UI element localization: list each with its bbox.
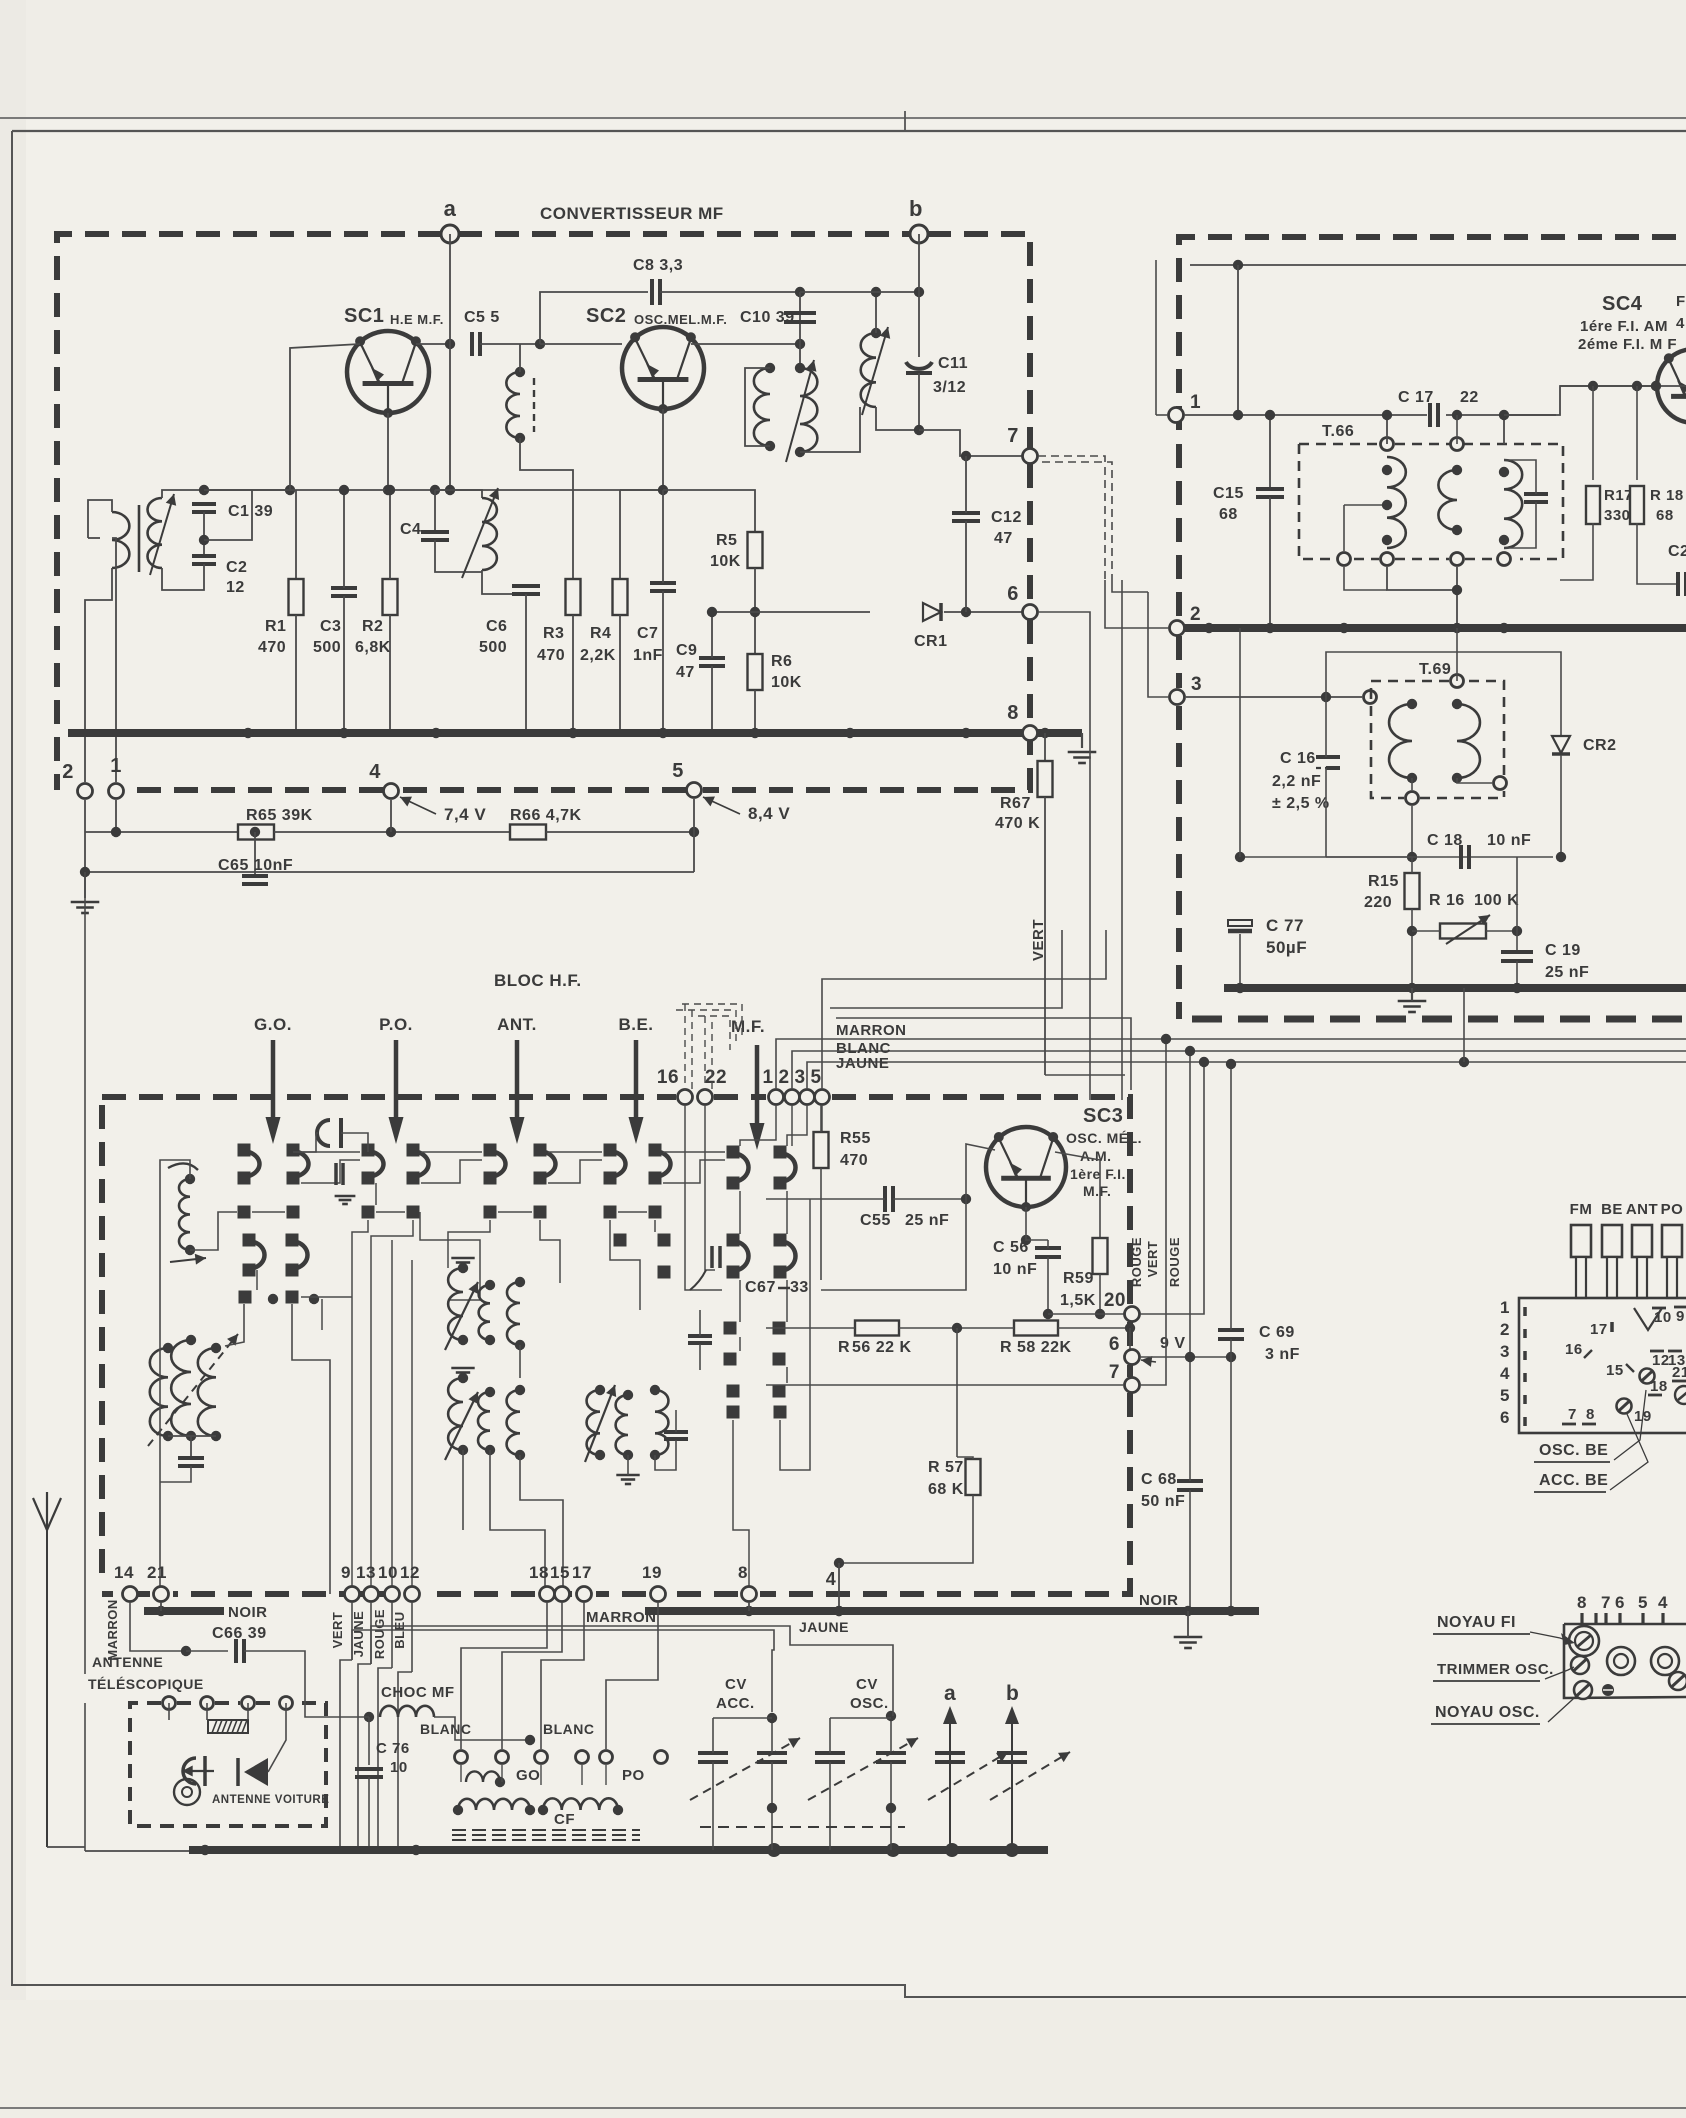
wire C9 bottom xyxy=(711,666,713,733)
junction xyxy=(650,1450,660,1460)
svg-text:R66 4,7K: R66 4,7K xyxy=(510,807,582,824)
svg-text:68: 68 xyxy=(1219,506,1238,523)
transformer T.69 box left xyxy=(1371,689,1404,798)
svg-text:R3: R3 xyxy=(543,625,564,642)
svg-text:C3: C3 xyxy=(320,618,341,635)
hole B xyxy=(1651,1647,1679,1675)
junction xyxy=(650,1385,660,1395)
switch bank B.E. contacts xyxy=(604,1144,671,1219)
junction xyxy=(795,363,805,373)
svg-text:B.E.: B.E. xyxy=(618,1015,653,1034)
pin AV a xyxy=(163,1697,176,1710)
svg-text:b: b xyxy=(1006,1682,1019,1705)
switch bank M.F. contacts xyxy=(727,1146,796,1190)
wire to choc xyxy=(305,1680,369,1717)
resistor R66 xyxy=(510,825,546,840)
resistor R16 variable xyxy=(1440,915,1490,944)
junction xyxy=(767,1843,781,1857)
junction C1-C2 tap xyxy=(199,535,209,545)
svg-text:2: 2 xyxy=(1190,604,1201,625)
inductor GO main xyxy=(458,1799,530,1810)
pin 21 xyxy=(154,1587,169,1602)
wire top row right xyxy=(800,291,919,293)
label 22 xyxy=(1460,389,1479,406)
inductor L5 xyxy=(861,333,876,407)
wire node b down xyxy=(918,234,920,292)
plate V mark xyxy=(1634,1308,1662,1330)
wire feed C xyxy=(836,1018,1131,1090)
wire C15 down xyxy=(1269,497,1271,628)
label R 16 xyxy=(1429,892,1465,909)
label C 19 xyxy=(1545,942,1581,959)
wire bus to T69 xyxy=(1456,628,1458,681)
svg-text:BLANC: BLANC xyxy=(420,1721,472,1737)
svg-text:16: 16 xyxy=(657,1067,679,1088)
svg-text:ANTENNE: ANTENNE xyxy=(92,1654,163,1670)
wire mid link xyxy=(519,1345,521,1378)
svg-text:FM: FM xyxy=(1570,1201,1593,1218)
resistor R67 xyxy=(1038,761,1053,797)
wire to SC4 base xyxy=(1504,386,1658,415)
junction xyxy=(458,1335,468,1345)
wire trio gnd xyxy=(160,1466,191,1482)
inductor ant coil 1 xyxy=(179,1179,190,1250)
wire C56 lead xyxy=(1047,1240,1049,1248)
svg-text:OSC.MEL.M.F.: OSC.MEL.M.F. xyxy=(634,312,727,327)
wire color b down xyxy=(358,1664,371,1850)
label 1ére F.I. AM xyxy=(1580,318,1668,335)
label C 77 xyxy=(1266,916,1304,935)
pin 3 FI xyxy=(1170,690,1185,705)
svg-text:2: 2 xyxy=(778,1067,789,1088)
svg-text:R67: R67 xyxy=(1000,795,1031,812)
svg-text:CR1: CR1 xyxy=(914,633,948,650)
wire base to SC1 xyxy=(290,344,360,490)
wire node a down xyxy=(449,234,451,490)
wire C9-R5 link xyxy=(712,611,755,613)
wire BE cap top xyxy=(675,1410,677,1432)
svg-text:9: 9 xyxy=(1676,1308,1685,1325)
pin T.69 right xyxy=(1494,777,1507,790)
svg-text:PO: PO xyxy=(1661,1201,1684,1218)
label 10K xyxy=(771,674,802,691)
junction tap xyxy=(1382,500,1392,510)
pin GO b xyxy=(496,1751,509,1764)
svg-text:BLANC: BLANC xyxy=(543,1721,595,1737)
wire R2 top xyxy=(389,490,391,579)
wire left long column xyxy=(84,872,86,1674)
label 12 xyxy=(226,579,245,596)
jack circle xyxy=(174,1779,200,1805)
wire capacitor CV ACC b bottom xyxy=(771,1762,773,1850)
label C8 3,3 xyxy=(633,257,683,274)
wire coil top left xyxy=(160,1160,190,1340)
svg-text:6: 6 xyxy=(1615,1593,1625,1612)
inductor CHOC MF xyxy=(380,1706,434,1717)
svg-text:C 76: C 76 xyxy=(376,1740,410,1757)
label ANTENNE xyxy=(92,1654,163,1670)
block border bottom mid xyxy=(399,787,686,793)
svg-text:8: 8 xyxy=(1586,1406,1595,1423)
svg-text:7: 7 xyxy=(1007,425,1019,447)
capacitor C68 xyxy=(1177,1481,1203,1490)
wire matrix down a xyxy=(420,1212,480,1300)
wire R55 top xyxy=(820,1105,822,1132)
wire C9 top xyxy=(711,612,713,658)
junction xyxy=(767,1713,777,1723)
svg-text:15: 15 xyxy=(550,1563,570,1582)
capacitor C69 xyxy=(1218,1330,1244,1339)
wire VERT into block xyxy=(1045,1074,1125,1076)
junction xyxy=(163,1431,173,1441)
wire matrix down b xyxy=(540,1220,560,1283)
pin 4 xyxy=(384,784,399,799)
svg-text:CONVERTISSEUR MF: CONVERTISSEUR MF xyxy=(540,204,724,223)
junction xyxy=(411,1845,421,1855)
junction xyxy=(1407,852,1417,862)
wire stub xyxy=(375,1183,377,1205)
junction xyxy=(1382,535,1392,545)
wire AVC rail xyxy=(1240,856,1553,858)
svg-text:R65 39K: R65 39K xyxy=(246,807,313,824)
svg-text:1: 1 xyxy=(1500,1298,1510,1317)
svg-text:8,4 V: 8,4 V xyxy=(748,804,790,823)
inductor T.66 secondary xyxy=(1438,470,1457,530)
junction jaune tap xyxy=(1226,1059,1236,1069)
label C6 xyxy=(486,618,507,635)
wire color a down xyxy=(340,1660,352,1850)
svg-text:470: 470 xyxy=(258,639,286,656)
pin 1 FI xyxy=(1169,408,1184,423)
label M.F. xyxy=(1083,1183,1111,1199)
wire pin13 down xyxy=(370,1602,372,1664)
ground bus right xyxy=(1068,752,1097,763)
svg-text:SC2: SC2 xyxy=(586,305,626,327)
label ± 2,5 % xyxy=(1272,795,1330,812)
label CR2 xyxy=(1583,737,1617,754)
junction xyxy=(163,1343,173,1353)
ground bus convertisseur xyxy=(68,729,1082,737)
antenna telescopique symbol xyxy=(33,1492,61,1847)
svg-text:3: 3 xyxy=(794,1067,805,1088)
capacitor C1 xyxy=(192,504,216,512)
switch bank G.O. contacts xyxy=(238,1144,309,1219)
label C 16 xyxy=(1280,750,1316,767)
resistor R18 xyxy=(1630,486,1644,524)
svg-text:ACC.: ACC. xyxy=(716,1695,755,1712)
svg-text:10K: 10K xyxy=(771,674,802,691)
svg-text:25 nF: 25 nF xyxy=(1545,964,1589,981)
transformer T.69 box top xyxy=(1371,681,1449,689)
plate label 16 xyxy=(1565,1341,1592,1358)
junction xyxy=(595,1450,605,1460)
arrow G.O. xyxy=(254,1015,292,1144)
leader NOYAU OSC xyxy=(1548,1694,1578,1722)
wire pin7 right xyxy=(1140,1039,1166,1385)
block HF border bottom b xyxy=(596,1591,646,1597)
wire antenna to box xyxy=(47,1846,85,1848)
wire C76 down xyxy=(368,1777,370,1850)
wire link b xyxy=(1112,580,1148,592)
arrow gang a xyxy=(928,1752,1008,1800)
wire SC1 collector to C5 xyxy=(416,343,450,345)
junction top rail xyxy=(1233,260,1243,270)
label 10 xyxy=(390,1759,408,1776)
svg-text:R1: R1 xyxy=(265,618,286,635)
inductor group mid lower xyxy=(448,1378,520,1455)
capacitor trio pad xyxy=(178,1458,204,1466)
label a gang xyxy=(944,1682,956,1705)
svg-text:8: 8 xyxy=(1007,702,1019,724)
svg-text:1ère F.I.: 1ère F.I. xyxy=(1070,1166,1126,1182)
junction xyxy=(1233,410,1243,420)
inductor T.66 primary xyxy=(1387,457,1406,548)
pin 10 xyxy=(385,1587,400,1602)
wire choc out xyxy=(434,1717,530,1740)
wire AV d down xyxy=(268,1703,286,1772)
inductor GO small xyxy=(466,1771,500,1782)
svg-text:M.F.: M.F. xyxy=(1083,1183,1111,1199)
junction C15 top xyxy=(1265,410,1275,420)
label NOIR xyxy=(1139,1592,1179,1609)
capacitor C17 xyxy=(1430,403,1438,427)
wire C16 to R15 xyxy=(1326,856,1412,858)
wire R4-emitter xyxy=(620,489,663,491)
wire pin2 down xyxy=(791,1105,793,1146)
wire C12 top xyxy=(965,456,967,513)
label CV ACC a xyxy=(725,1676,747,1693)
junction xyxy=(185,1174,195,1184)
wire C77 bottom xyxy=(1239,934,1241,988)
svg-text:13: 13 xyxy=(356,1563,376,1582)
pin 1 xyxy=(769,1090,784,1105)
svg-text:7: 7 xyxy=(1109,1362,1120,1383)
plate pin 5 xyxy=(1500,1386,1525,1405)
svg-text:4: 4 xyxy=(1658,1593,1668,1612)
wire tap to base node xyxy=(204,490,252,540)
label 470 xyxy=(840,1152,868,1169)
wire contact link 3 xyxy=(421,1151,482,1153)
label R56 xyxy=(838,1339,850,1356)
wire SC3 emitter down xyxy=(1026,1207,1048,1240)
pin 2 FI xyxy=(1170,621,1185,636)
svg-text:17: 17 xyxy=(1590,1321,1608,1338)
svg-text:ANT.: ANT. xyxy=(497,1015,537,1034)
junction xyxy=(1382,465,1392,475)
wire link node1 xyxy=(1156,414,1168,416)
bus NOIR main xyxy=(645,1607,1259,1615)
label MARRON main xyxy=(586,1609,657,1626)
wire xyxy=(1344,567,1387,590)
block HF border top right xyxy=(832,1097,1130,1306)
wire C17 right xyxy=(1446,414,1556,416)
svg-text:2,2 nF: 2,2 nF xyxy=(1272,773,1321,790)
wire matrix down c xyxy=(610,1220,640,1310)
svg-text:12: 12 xyxy=(400,1563,420,1582)
capacitor matrix coupling xyxy=(317,1118,341,1148)
label TRIMMER OSC. xyxy=(1433,1661,1554,1681)
wire row 490 xyxy=(204,489,663,491)
label OSC. MÉL. xyxy=(1066,1130,1142,1146)
label GO xyxy=(516,1767,540,1784)
capacitor C7 xyxy=(650,583,676,591)
block FI border left mid2 xyxy=(1176,636,1182,688)
svg-text:C7: C7 xyxy=(637,625,658,642)
wire T.66 tap xyxy=(1344,504,1387,506)
svg-text:C5 5: C5 5 xyxy=(464,309,500,326)
wire C69 down to bus xyxy=(1230,1339,1232,1611)
wire pin5 down xyxy=(821,1105,823,1132)
svg-text:500: 500 xyxy=(479,639,507,656)
pin PO b xyxy=(576,1751,589,1764)
junction xyxy=(525,1805,535,1815)
resistor R55 xyxy=(814,1132,829,1168)
junction xyxy=(515,1450,525,1460)
svg-text:17: 17 xyxy=(572,1563,592,1582)
junction xyxy=(1452,585,1462,595)
ground matrix small xyxy=(335,1196,356,1204)
wire MF col loop xyxy=(780,1199,810,1470)
wire pin6 down xyxy=(1038,612,1090,1100)
wire bank to trio xyxy=(225,1304,244,1346)
wire lower stub xyxy=(321,1299,323,1330)
wire xyxy=(605,1765,607,1785)
resistor R56 xyxy=(855,1321,899,1336)
inductor osc secondary xyxy=(800,368,817,452)
wire contact link 8 xyxy=(663,1160,725,1183)
svg-text:3: 3 xyxy=(1500,1342,1510,1361)
svg-text:ANT: ANT xyxy=(1626,1201,1658,1218)
wire C3 bottom xyxy=(343,596,345,733)
label OSC. BE xyxy=(1534,1442,1610,1462)
pin 5 xyxy=(815,1090,830,1105)
capacitor C55 xyxy=(885,1186,893,1212)
svg-text:19: 19 xyxy=(642,1563,662,1582)
wire pin16 down xyxy=(685,1105,722,1290)
wire pin2 blanc xyxy=(792,1051,848,1089)
tuning arrow trio xyxy=(148,1334,238,1446)
capacitor CV ACC b xyxy=(757,1753,787,1762)
label 50 nF xyxy=(1141,1493,1185,1510)
label 2éme F.I. M F xyxy=(1578,336,1677,353)
junction xyxy=(185,1245,195,1255)
wire node4 up xyxy=(838,1563,840,1611)
junction collector node xyxy=(445,339,455,349)
wire xyxy=(1411,778,1413,790)
wire feed B xyxy=(830,930,1062,1008)
pin T.69 bottom xyxy=(1406,792,1419,805)
label 500 xyxy=(479,639,507,656)
capacitor C small xyxy=(336,1163,343,1185)
label NOIR xyxy=(228,1604,268,1621)
junction xyxy=(1651,381,1661,391)
label SC4 xyxy=(1602,293,1643,315)
wire top rail FI xyxy=(1190,264,1686,266)
svg-text:1ére F.I. AM: 1ére F.I. AM xyxy=(1580,318,1668,335)
wire pin12 column xyxy=(411,1260,413,1586)
capacitor CV ACC a xyxy=(698,1753,728,1762)
svg-text:SC1: SC1 xyxy=(344,305,384,327)
wire link to pin3 xyxy=(1148,592,1169,697)
svg-text:68 K: 68 K xyxy=(928,1481,964,1498)
wire osc prim loop xyxy=(745,368,770,446)
svg-text:GO: GO xyxy=(516,1767,540,1784)
label R55 xyxy=(840,1130,871,1147)
svg-text:1: 1 xyxy=(1190,392,1201,413)
svg-text:8: 8 xyxy=(738,1563,748,1582)
arrow CV ACC xyxy=(690,1738,800,1800)
wire C66 right xyxy=(244,1651,305,1680)
svg-text:P.O.: P.O. xyxy=(379,1015,413,1034)
svg-text:5: 5 xyxy=(1500,1386,1510,1405)
tuning arrow L1 xyxy=(150,494,174,575)
capacitor C76 xyxy=(355,1769,383,1777)
wire L5 top xyxy=(875,292,877,333)
wire down to pin6 xyxy=(1129,1328,1131,1357)
wire left to bus xyxy=(85,1850,189,1852)
label 470 xyxy=(537,647,565,664)
label NOYAU FI xyxy=(1433,1614,1530,1634)
svg-text:18: 18 xyxy=(529,1563,549,1582)
svg-text:ANTENNE VOITURE: ANTENNE VOITURE xyxy=(212,1794,329,1806)
connector lug ANT xyxy=(1626,1201,1658,1298)
svg-text:BE: BE xyxy=(1601,1201,1623,1218)
junction bus xyxy=(750,728,760,738)
svg-text:5: 5 xyxy=(1638,1593,1648,1612)
svg-text:10 nF: 10 nF xyxy=(993,1261,1037,1278)
svg-text:R 57: R 57 xyxy=(928,1459,964,1476)
wire trio down xyxy=(190,1436,192,1458)
inductor tank coil xyxy=(482,498,497,570)
wire row3 link b xyxy=(376,1211,405,1213)
svg-text:C2: C2 xyxy=(226,559,247,576)
transformer T.66 box right xyxy=(1395,444,1563,559)
wire to coupling cap xyxy=(293,1133,318,1152)
svg-text:R: R xyxy=(838,1339,850,1356)
svg-text:C12: C12 xyxy=(991,509,1022,526)
wire pin1 up xyxy=(112,538,116,782)
plate pin 1 xyxy=(1500,1298,1525,1317)
wire dashed down a xyxy=(684,1004,686,1090)
svg-text:22: 22 xyxy=(1460,389,1479,406)
wire T66 to rail xyxy=(1386,415,1388,444)
label 330 xyxy=(1604,507,1631,524)
wire C65 lead xyxy=(254,832,256,876)
wire C19 bottom xyxy=(1516,961,1518,988)
wire T66 bottoms xyxy=(1387,567,1457,590)
svg-text:3/12: 3/12 xyxy=(933,379,966,396)
pin 15 xyxy=(555,1587,570,1602)
annotation 7,4V xyxy=(400,797,436,814)
wire capacitor CV ACC b top xyxy=(771,1718,773,1753)
label BLANC xyxy=(836,1040,891,1057)
wire dashed down d xyxy=(711,1022,713,1090)
block border right lower xyxy=(703,620,1030,790)
wire C7 bottom xyxy=(662,591,664,733)
label 25 nF xyxy=(905,1212,949,1229)
junction CR2 out xyxy=(1556,852,1566,862)
label JAUNE xyxy=(836,1055,889,1072)
svg-text:6,8K: 6,8K xyxy=(355,639,391,656)
wire C12 bottom xyxy=(965,521,967,612)
wire C1-C2 xyxy=(203,512,205,556)
svg-text:C66 39: C66 39 xyxy=(212,1625,267,1642)
registration tick top xyxy=(904,111,906,130)
junction xyxy=(1452,773,1462,783)
leader NOYAU FI xyxy=(1530,1632,1569,1641)
capacitor gang a xyxy=(935,1753,965,1762)
capacitor C6 xyxy=(512,586,540,594)
